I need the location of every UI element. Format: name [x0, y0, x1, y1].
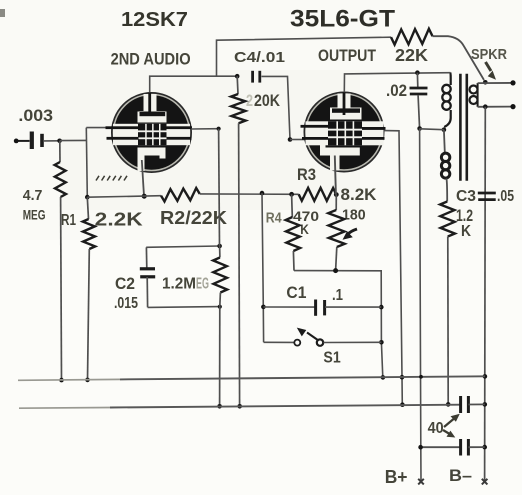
node plate junction at 20K/C4	[235, 74, 240, 79]
svg-text:.003: .003	[18, 106, 53, 125]
transformer primary winding	[442, 73, 450, 127]
wire B- rail1	[18, 376, 485, 380]
svg-text:2.2K: 2.2K	[95, 209, 143, 229]
svg-text:.015: .015	[114, 295, 138, 312]
svg-text:R2/22K: R2/22K	[160, 208, 227, 228]
terminal B+	[418, 479, 424, 485]
wire C1 left lead	[263, 306, 315, 308]
svg-text:35L6-GT: 35L6-GT	[290, 5, 395, 32]
node B+ column at rail1 crossing	[419, 375, 423, 379]
label 22K	[395, 45, 428, 65]
node filter line at B+ column	[418, 445, 423, 450]
svg-text:MEG: MEG	[23, 207, 46, 223]
node 180 at bias bus	[333, 268, 338, 273]
wire screen bus to primary	[420, 128, 444, 131]
resistor 22K top	[391, 29, 433, 45]
node speaker terminal top	[510, 80, 515, 85]
resistor R4 470K	[286, 194, 300, 270]
svg-text:1.2M: 1.2M	[162, 276, 196, 293]
label 2.2K	[95, 209, 143, 229]
label .1	[332, 287, 343, 304]
svg-text:OUTPUT: OUTPUT	[318, 47, 376, 65]
label 35L6-GT tube type	[290, 5, 395, 32]
wire junction to suppressor column	[60, 139, 87, 141]
node voice coil top junction	[483, 80, 488, 85]
label SPKR	[471, 47, 507, 63]
label C3	[456, 188, 476, 205]
wire V2 plate lead	[344, 73, 450, 93]
node screen column top	[217, 127, 221, 131]
switch S1 contacts	[294, 339, 323, 345]
label 180 arrow	[343, 229, 358, 240]
wire top feed riser	[217, 37, 392, 76]
label K of 470K	[300, 221, 309, 237]
node speaker terminal bottom	[510, 104, 515, 109]
wire voice coil top lead	[478, 82, 513, 84]
svg-text:EG: EG	[196, 276, 209, 293]
node junction wire to C1 column	[260, 191, 265, 196]
node .02 bottom junction	[417, 126, 422, 131]
wire .003 to grid junction	[44, 140, 60, 142]
label MEG	[23, 207, 46, 223]
svg-text:S1: S1	[323, 349, 341, 366]
node 1.2MEG bottom junction	[218, 305, 222, 309]
svg-text:180: 180	[342, 206, 366, 223]
svg-text:C2: C2	[115, 274, 135, 293]
svg-text:22K: 22K	[395, 45, 428, 65]
svg-text:B+: B+	[385, 466, 408, 487]
node return column at rail2	[483, 402, 488, 407]
node 1.2K at rail2	[446, 402, 451, 407]
voice coil winding	[470, 83, 478, 107]
wire voice coil bottom lead	[478, 106, 513, 108]
label C2	[115, 274, 135, 293]
wire C1 right lead	[325, 306, 381, 308]
capacitor 40uF upper	[461, 396, 485, 413]
resistor 4.7 MEG	[55, 141, 66, 380]
node screen column at rail1	[400, 375, 405, 380]
wire C1 left column	[262, 193, 264, 342]
node input terminal	[14, 139, 19, 144]
capacitor C2 .015	[140, 247, 155, 307]
wire suppressor vertical V86	[86, 128, 87, 198]
label SPKR arrow	[486, 62, 497, 80]
capacitor .02 plates	[410, 73, 428, 129]
node grid input junction	[57, 139, 62, 144]
wire 22K to speaker	[433, 36, 485, 80]
node bias bus at rail1	[381, 375, 386, 380]
wire R2 to R3 junctions	[200, 193, 299, 195]
wire C2 box bottom	[148, 306, 220, 309]
label 180	[342, 206, 366, 223]
node R3 at V2 cathode	[334, 192, 339, 197]
node bias bus at S1	[379, 340, 384, 345]
label 470	[293, 208, 319, 224]
svg-text:.02: .02	[386, 81, 407, 100]
label K of 1.2K	[461, 223, 472, 240]
node output grid junction	[288, 137, 293, 142]
resistor R2 22K	[161, 188, 200, 202]
resistor 1.2MEG in column	[213, 129, 227, 407]
node voice coil bottom junction	[483, 104, 488, 109]
svg-text:C3: C3	[456, 188, 476, 205]
node return column at rail1	[483, 374, 488, 379]
resistor 180 cathode bias	[328, 195, 344, 271]
label .05	[497, 188, 514, 205]
tube V2 35L6-GT envelope and electrodes	[301, 92, 386, 171]
label 8.2K	[341, 185, 378, 204]
resistor R3 8.2K	[299, 188, 337, 201]
label 12SK7 tube type	[121, 9, 188, 31]
label .015	[114, 295, 138, 312]
label 1.2	[456, 206, 473, 225]
resistor R1 2.2K	[83, 197, 96, 380]
label .003	[18, 106, 53, 125]
label R3	[297, 165, 316, 184]
svg-text:40: 40	[428, 420, 444, 437]
node bias bus at C1	[379, 305, 384, 310]
node screen column at rail2	[400, 402, 405, 407]
terminal B-	[482, 479, 488, 485]
capacitor C .003 plates	[32, 132, 42, 150]
node cathode-suppressor junction	[85, 195, 90, 200]
svg-text:4.7: 4.7	[23, 188, 43, 204]
svg-text:2: 2	[246, 91, 253, 110]
edge artifact top-left	[0, 9, 5, 17]
svg-text:B–: B–	[449, 466, 472, 485]
svg-text:R4: R4	[266, 209, 282, 226]
label 4.7	[23, 188, 43, 204]
label C4/.01	[234, 49, 285, 66]
label C1	[286, 283, 306, 302]
wire plate lead up from V1	[150, 76, 237, 92]
svg-text:.1: .1	[332, 287, 343, 304]
node .02 top junction	[415, 70, 420, 75]
label EG faded part	[196, 276, 209, 293]
label 20K	[246, 91, 281, 110]
wire suppressor lead to tube	[86, 127, 112, 129]
svg-text:C1: C1	[286, 283, 306, 302]
resistor 20K	[231, 76, 246, 406]
svg-text:K: K	[300, 221, 309, 237]
label R2/22K	[160, 208, 227, 228]
label 40 electrolytic value	[428, 420, 444, 437]
wire V1 cathode lead	[142, 160, 144, 196]
svg-text:SPKR: SPKR	[471, 47, 507, 63]
capacitor C4 .01 plates	[253, 71, 260, 83]
wire input lead to .003	[16, 140, 30, 142]
label B-	[449, 466, 472, 485]
svg-text:K: K	[461, 223, 472, 240]
wire S1 right lead	[324, 341, 382, 343]
wire C4 to grid corner	[262, 76, 291, 139]
svg-text:2ND AUDIO: 2ND AUDIO	[111, 50, 191, 68]
label 40 arrow down	[443, 430, 455, 438]
resistor 1.2K	[440, 202, 455, 405]
node 1.2MEG top junction	[217, 244, 222, 249]
capacitor 40uF lower	[421, 439, 485, 456]
wire B+ column	[420, 129, 421, 482]
svg-text:R1: R1	[61, 212, 76, 229]
tube V1 12SK7 envelope and electrodes	[106, 93, 193, 172]
node return column at filter line	[482, 445, 487, 450]
label S1	[323, 349, 341, 366]
switch S1 blade	[297, 328, 319, 341]
label .02	[386, 81, 407, 100]
node 20K column at rail2	[237, 404, 242, 409]
wire cathode bus	[87, 196, 161, 198]
label 40 arrow up	[444, 414, 460, 427]
capacitor C1 .1 plates	[316, 300, 325, 316]
svg-text:R3: R3	[297, 165, 316, 184]
node primary bottom junction	[442, 127, 447, 132]
label OUTPUT	[318, 47, 376, 65]
node R1 at B- rail	[85, 378, 90, 383]
node C1 left junction	[261, 305, 266, 310]
wire bias bottom bus	[294, 271, 383, 378]
transformer lower field winding	[441, 130, 449, 202]
node junction R4/grid column	[289, 192, 294, 197]
svg-text:20K: 20K	[254, 91, 281, 110]
wire speaker return column	[484, 107, 487, 482]
label R1	[61, 212, 76, 229]
label 1.2M dark part	[162, 276, 196, 293]
svg-text:C4/.01: C4/.01	[234, 49, 285, 66]
capacitor C3 .05 plates	[478, 193, 496, 200]
label 2ND AUDIO	[111, 50, 191, 68]
wire grid stub into V2	[290, 139, 305, 141]
wire S1 left lead	[264, 341, 295, 343]
grid hatch marks under V1	[96, 176, 127, 181]
wire V2 screen lead right	[385, 131, 403, 405]
transformer core	[460, 74, 466, 181]
svg-text:8.2K: 8.2K	[341, 185, 378, 204]
svg-text:12SK7: 12SK7	[121, 9, 188, 31]
svg-text:.05: .05	[497, 188, 514, 205]
label B+	[385, 466, 408, 487]
node 4.7MEG at B- rail	[59, 378, 64, 383]
label R4	[266, 209, 282, 226]
wire screen lead V1 to column	[191, 128, 218, 130]
wire B+ rail2 left	[19, 405, 460, 409]
node 1.2MEG column at rail2	[217, 404, 222, 409]
wire V2 cathode lead	[335, 156, 336, 195]
wire C2 box top	[146, 246, 219, 247]
node V1 cathode junction	[142, 194, 147, 199]
